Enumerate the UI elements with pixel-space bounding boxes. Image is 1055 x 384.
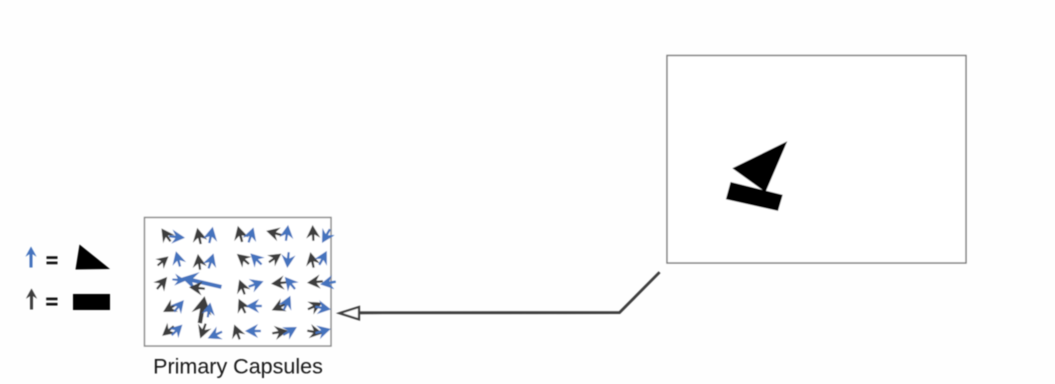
svg-text:Primary Capsules: Primary Capsules: [153, 355, 323, 379]
